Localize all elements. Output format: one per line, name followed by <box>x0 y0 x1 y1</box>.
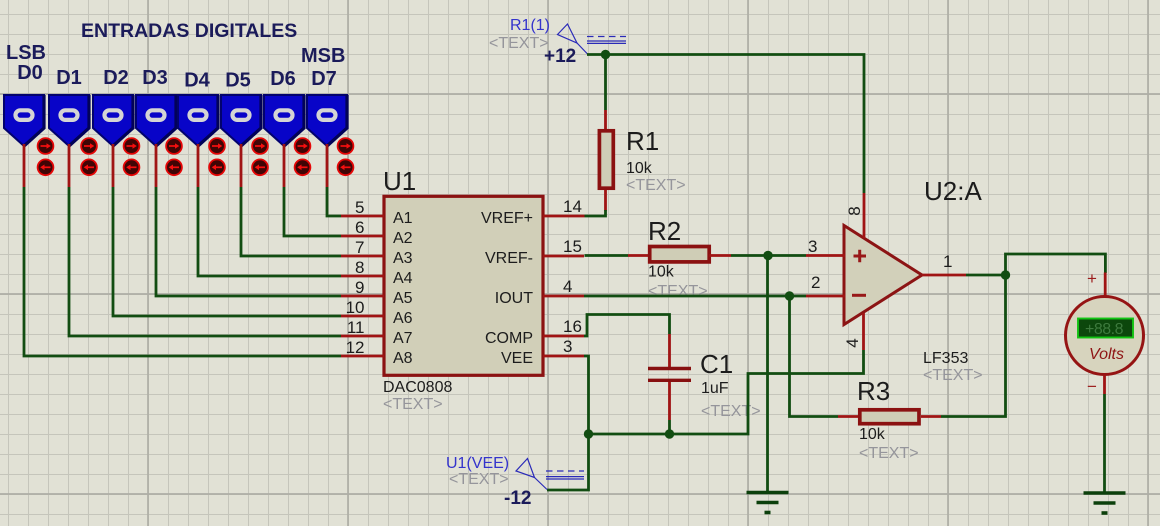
svg-text:10k: 10k <box>626 160 653 177</box>
wire COMP pin16 to C1 top <box>584 315 670 337</box>
svg-text:VREF-: VREF- <box>485 250 533 267</box>
svg-text:12: 12 <box>346 338 365 357</box>
button D2 increment <box>124 138 140 154</box>
svg-text:10k: 10k <box>648 264 675 281</box>
button D1 decrement <box>81 159 97 175</box>
junction node VEE rail <box>584 429 593 438</box>
wire R1 to pin14 <box>585 210 606 216</box>
svg-text:A6: A6 <box>393 310 413 327</box>
wire inverting node down to R3 <box>790 296 839 417</box>
opamp pin4 stub (V-) <box>862 313 865 350</box>
svg-text:<TEXT>: <TEXT> <box>701 403 761 420</box>
wire pin15 to R2 <box>585 254 629 257</box>
svg-text:<TEXT>: <TEXT> <box>859 445 919 462</box>
capacitor C1 plates <box>648 369 691 381</box>
svg-text:16: 16 <box>563 317 582 336</box>
svg-text:4: 4 <box>563 277 572 296</box>
resistor R3 right lead <box>921 415 941 418</box>
svg-text:3: 3 <box>808 237 817 256</box>
opamp pin3 stub <box>806 254 845 257</box>
wire +12 rail to opamp pin8 <box>587 55 864 194</box>
junction node noninverting input <box>763 251 772 260</box>
svg-text:D4: D4 <box>184 70 210 92</box>
svg-text:2: 2 <box>811 273 820 292</box>
opamp plus mark <box>854 250 867 262</box>
wire D3 to DAC pin row y=295 <box>156 187 341 296</box>
button D4 decrement <box>209 159 225 175</box>
svg-text:5: 5 <box>355 198 364 217</box>
wire D0 to DAC pin row y=355 <box>24 187 341 356</box>
svg-text:10: 10 <box>346 298 365 317</box>
opamp pin1 output stub <box>922 274 966 277</box>
svg-text:A3: A3 <box>393 250 413 267</box>
logic state switch D1 <box>49 95 89 146</box>
svg-text:MSB: MSB <box>301 45 345 67</box>
svg-text:R1: R1 <box>626 126 659 156</box>
svg-text:1: 1 <box>943 252 952 271</box>
pin of switch D7 <box>326 144 329 187</box>
wire R3 up to output node <box>941 275 1006 417</box>
button D3 increment <box>166 138 182 154</box>
ground symbol (voltmeter) <box>1084 493 1126 513</box>
wire D1 to DAC pin row y=335 <box>69 187 341 336</box>
svg-text:Volts: Volts <box>1089 346 1124 363</box>
svg-text:DAC0808: DAC0808 <box>383 379 452 396</box>
resistor R2 left lead <box>628 254 648 257</box>
svg-text:7: 7 <box>355 238 364 257</box>
DAC pin 11 stub (A7) <box>341 335 384 338</box>
svg-text:+12: +12 <box>544 46 576 67</box>
button D6 increment <box>295 138 311 154</box>
button D2 decrement <box>124 159 140 175</box>
DAC pin 6 stub (A2) <box>341 235 384 238</box>
pin of switch D3 <box>155 144 158 187</box>
svg-text:VEE: VEE <box>501 350 533 367</box>
svg-text:COMP: COMP <box>485 330 533 347</box>
svg-text:A4: A4 <box>393 270 413 287</box>
svg-text:1uF: 1uF <box>701 380 729 397</box>
pin of switch D2 <box>112 144 115 187</box>
svg-text:A7: A7 <box>393 330 413 347</box>
wire R2 to opamp pin3 <box>731 254 806 257</box>
DAC pin 9 stub (A5) <box>341 295 384 298</box>
opamp pin8 stub (V+) <box>863 193 866 238</box>
resistor R1 top lead <box>604 110 607 129</box>
svg-text:6: 6 <box>355 218 364 237</box>
svg-text:D0: D0 <box>17 62 43 84</box>
svg-text:U2:A: U2:A <box>924 176 982 206</box>
svg-text:VREF+: VREF+ <box>481 210 533 227</box>
svg-text:A5: A5 <box>393 290 413 307</box>
resistor R3 body <box>860 410 919 424</box>
wire D7 to DAC pin row y=215 <box>327 187 341 216</box>
svg-text:D2: D2 <box>103 67 129 89</box>
pin of switch D6 <box>283 144 286 187</box>
DAC U1 body <box>384 196 543 375</box>
op-amp U2:A body <box>844 226 922 325</box>
svg-text:8: 8 <box>845 206 864 215</box>
DAC pin 12 stub (A8) <box>341 355 384 358</box>
svg-text:11: 11 <box>347 318 365 337</box>
button D7 increment <box>338 138 354 154</box>
button D0 increment <box>38 138 54 154</box>
power terminal +12 symbol <box>558 24 627 54</box>
wire VEE rail to opamp pin4 <box>589 350 864 434</box>
svg-text:4: 4 <box>843 338 862 347</box>
svg-text:<TEXT>: <TEXT> <box>489 35 549 52</box>
junction node +12/R1 <box>601 50 610 59</box>
svg-text:14: 14 <box>563 197 582 216</box>
wire noninverting input to ground <box>766 256 769 493</box>
svg-text:R3: R3 <box>857 376 890 406</box>
opamp minus mark <box>852 294 866 297</box>
wire D4 to DAC pin row y=275 <box>198 187 341 276</box>
junction node inverting input <box>785 291 794 300</box>
button D5 decrement <box>252 159 268 175</box>
svg-text:8: 8 <box>355 258 364 277</box>
svg-text:<TEXT>: <TEXT> <box>626 177 686 194</box>
DAC pin 10 stub (A6) <box>341 315 384 318</box>
svg-text:<TEXT>: <TEXT> <box>648 283 708 300</box>
svg-text:-12: -12 <box>504 488 531 509</box>
svg-text:C1: C1 <box>700 349 733 379</box>
svg-text:D7: D7 <box>311 68 337 90</box>
logic state switch D4 <box>178 95 218 146</box>
button D3 decrement <box>166 159 182 175</box>
voltmeter display <box>1078 319 1133 339</box>
junction node C1/VEE rail <box>665 429 674 438</box>
svg-text:D1: D1 <box>56 67 82 89</box>
svg-text:<TEXT>: <TEXT> <box>923 367 983 384</box>
svg-text:A8: A8 <box>393 350 413 367</box>
svg-text:3: 3 <box>563 337 572 356</box>
svg-text:<TEXT>: <TEXT> <box>383 396 443 413</box>
wire opamp output to node <box>966 274 1006 277</box>
svg-text:A2: A2 <box>393 230 413 247</box>
logic state switch D2 <box>93 95 133 146</box>
wire D5 to DAC pin row y=255 <box>241 187 341 256</box>
logic state switch D5 <box>221 95 261 146</box>
resistor R3 left lead <box>838 415 858 418</box>
DAC pin 4 stub (IOUT) <box>543 295 584 298</box>
DAC pin 14 stub (VREF+) <box>543 215 585 218</box>
svg-text:D5: D5 <box>225 70 251 92</box>
svg-text:D6: D6 <box>270 68 296 90</box>
resistor R1 bottom lead <box>604 190 607 211</box>
wire D6 to DAC pin row y=235 <box>284 187 341 236</box>
DAC pin 5 stub (A1) <box>341 215 384 218</box>
opamp pin2 stub <box>806 295 845 298</box>
DAC pin 3 stub (VEE) <box>543 355 584 358</box>
svg-text:+: + <box>1087 269 1097 288</box>
logic state switch D6 <box>264 95 304 146</box>
svg-text:LF353: LF353 <box>923 350 968 367</box>
resistor R2 right lead <box>709 254 731 257</box>
wire voltmeter to ground <box>1103 394 1106 492</box>
svg-text:<TEXT>: <TEXT> <box>449 471 509 488</box>
junction node output <box>1001 270 1010 279</box>
svg-text:U1(VEE): U1(VEE) <box>446 455 509 472</box>
svg-text:A1: A1 <box>393 210 413 227</box>
capacitor C1 top lead <box>668 334 671 368</box>
voltmeter body <box>1066 297 1144 375</box>
resistor R1 body <box>599 131 613 188</box>
svg-text:15: 15 <box>563 237 582 256</box>
capacitor C1 bottom lead <box>668 382 671 420</box>
button D1 increment <box>81 138 97 154</box>
power terminal -12 symbol <box>516 459 584 490</box>
pin of switch D5 <box>240 144 243 187</box>
pin of switch D1 <box>68 144 71 187</box>
button D7 decrement <box>338 159 354 175</box>
DAC pin 16 stub (COMP) <box>543 335 584 338</box>
pin of switch D0 <box>23 144 26 187</box>
svg-text:−: − <box>1087 377 1097 396</box>
button D4 increment <box>209 138 225 154</box>
logic state switch D7 <box>307 95 347 146</box>
wire output node to voltmeter <box>1006 254 1106 275</box>
svg-text:+88.8: +88.8 <box>1085 321 1124 338</box>
button D5 increment <box>252 138 268 154</box>
voltmeter minus lead <box>1103 375 1106 395</box>
svg-text:9: 9 <box>355 278 364 297</box>
logic state switch D3 <box>136 95 176 146</box>
wire +12 down to R1 <box>604 55 607 111</box>
svg-text:R1(1): R1(1) <box>510 17 550 34</box>
wire IOUT pin4 to inverting node <box>584 295 790 298</box>
logic state switch D0 <box>4 95 44 146</box>
svg-text:R2: R2 <box>648 216 681 246</box>
svg-text:IOUT: IOUT <box>495 290 533 307</box>
voltmeter plus lead <box>1104 273 1107 298</box>
wire VEE pin3 down to -12 terminal <box>547 356 589 490</box>
button D0 decrement <box>38 159 54 175</box>
svg-text:LSB: LSB <box>6 42 46 64</box>
pin of switch D4 <box>197 144 200 187</box>
DAC pin 8 stub (A4) <box>341 275 384 278</box>
DAC pin 15 stub (VREF-) <box>543 255 584 258</box>
button D6 decrement <box>295 159 311 175</box>
ground symbol (opamp input) <box>747 493 789 513</box>
svg-text:ENTRADAS DIGITALES: ENTRADAS DIGITALES <box>81 20 297 42</box>
wire C1 bottom to VEE rail <box>668 420 671 434</box>
resistor R2 body <box>650 247 710 262</box>
wire D2 to DAC pin row y=315 <box>113 187 341 316</box>
svg-text:U1: U1 <box>383 166 416 196</box>
wire inverting node to opamp pin2 <box>790 295 807 298</box>
svg-text:D3: D3 <box>142 67 168 89</box>
DAC pin 7 stub (A3) <box>341 255 384 258</box>
svg-text:10k: 10k <box>859 426 886 443</box>
